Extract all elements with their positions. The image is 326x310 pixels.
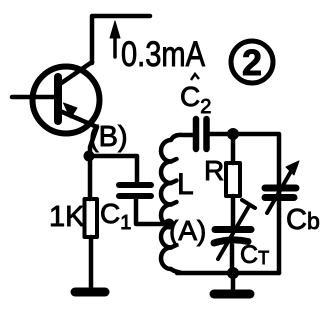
variable capacitor Cb	[265, 161, 299, 213]
wire bottom	[177, 271, 279, 276]
wire C1 to node A	[136, 199, 168, 224]
ground (right)	[214, 290, 250, 299]
capacitor C1	[119, 185, 151, 196]
caret mark above C2	[191, 74, 199, 80]
wire base lead	[12, 95, 55, 100]
node B junction	[84, 151, 95, 162]
svg-text:2: 2	[242, 42, 262, 83]
svg-text:Cb: Cb	[286, 204, 320, 236]
junction dot (bottom)	[227, 267, 239, 279]
figure number badge 2	[231, 41, 273, 83]
svg-text:0.3mA: 0.3mA	[121, 35, 206, 74]
capacitor C2	[196, 119, 207, 149]
transistor Q1	[33, 62, 100, 156]
resistor R	[226, 163, 240, 196]
junction dot (top)	[227, 128, 239, 140]
wire C2 to junction	[210, 132, 233, 137]
svg-text:1K: 1K	[49, 201, 85, 233]
wire junction to ground	[231, 273, 236, 289]
current arrow 0.3mA	[110, 21, 120, 57]
wire node B down	[88, 156, 93, 199]
trimmer capacitor Ct	[214, 200, 255, 273]
inductor L	[161, 135, 193, 273]
svg-text:L: L	[177, 168, 194, 201]
resistor R1 1K	[85, 199, 98, 237]
node A junction	[164, 219, 175, 230]
svg-text:R: R	[204, 155, 224, 186]
svg-text:(B): (B)	[89, 121, 128, 153]
ground (left)	[75, 288, 105, 297]
wire node B to C1	[89, 156, 137, 182]
wire junction to R	[231, 134, 236, 163]
wire junction to right branch	[233, 134, 279, 273]
wire resistor to ground	[89, 237, 94, 289]
wire collector to top	[92, 16, 150, 63]
svg-text:(A): (A)	[169, 215, 206, 246]
wire R to Ct	[231, 196, 236, 227]
